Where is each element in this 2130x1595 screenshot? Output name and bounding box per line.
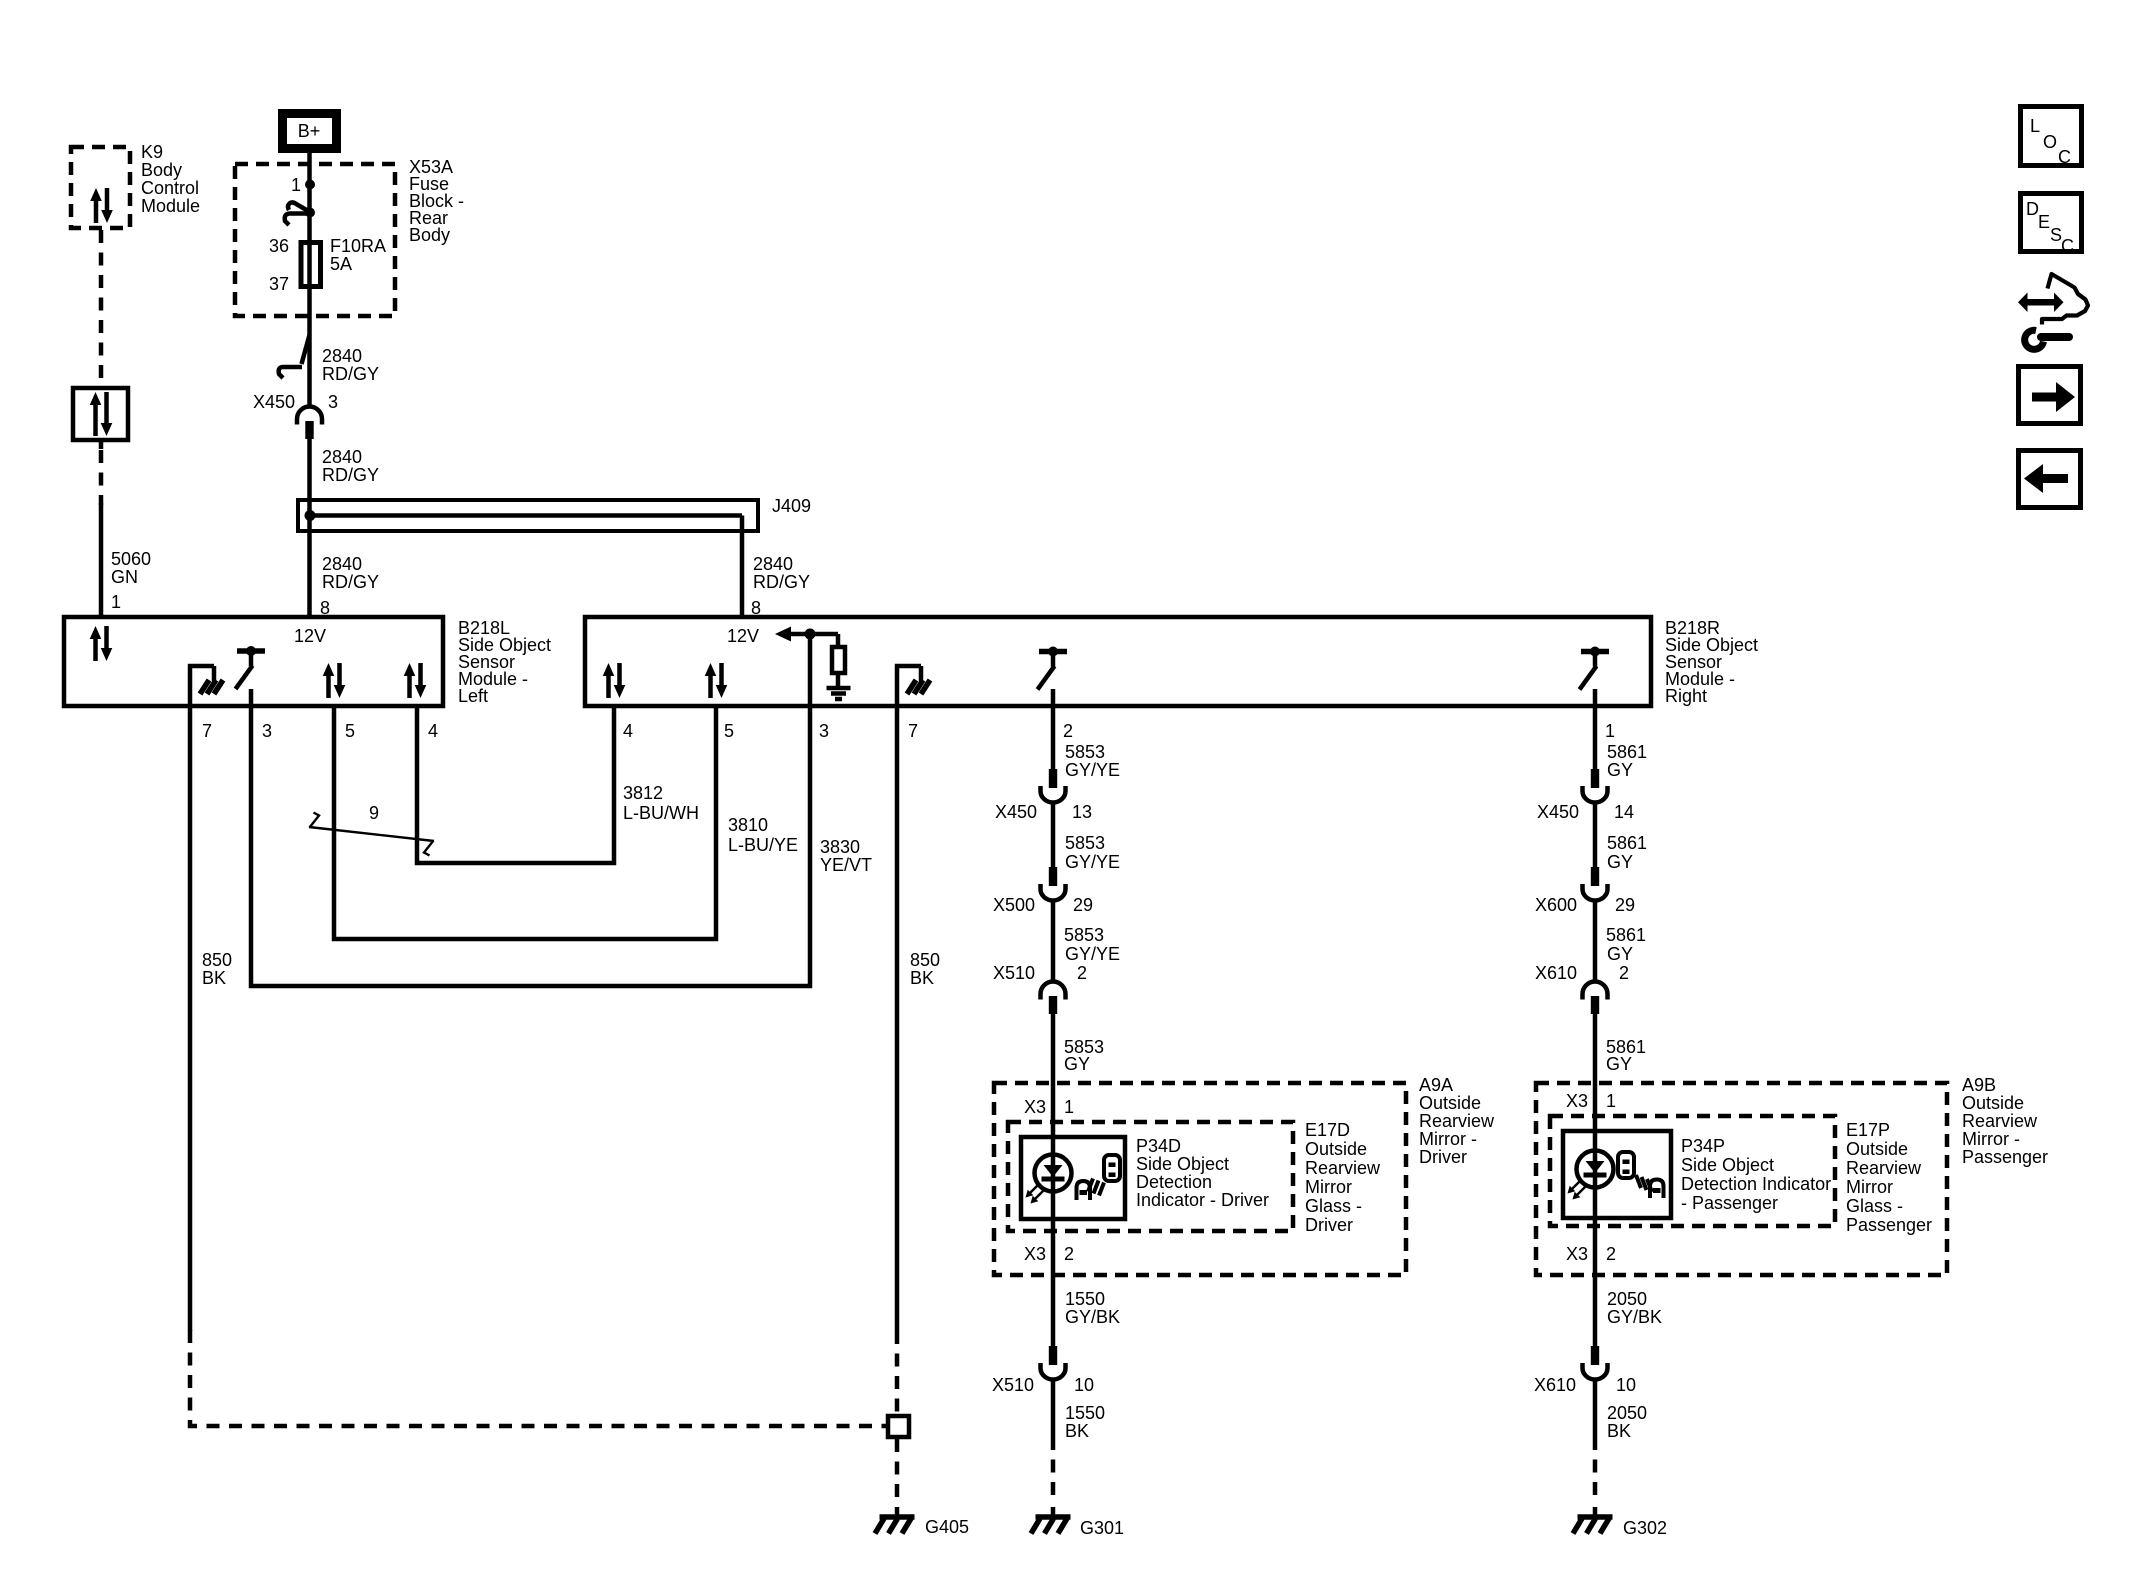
svg-text:BK: BK: [1607, 1421, 1631, 1441]
svg-text:2: 2: [1063, 721, 1073, 741]
svg-text:Mirror -: Mirror -: [1419, 1129, 1477, 1149]
svg-text:2050: 2050: [1607, 1403, 1647, 1423]
svg-text:3812: 3812: [623, 783, 663, 803]
svg-text:C: C: [2061, 236, 2074, 256]
svg-text:2840: 2840: [322, 447, 362, 467]
svg-text:P34D: P34D: [1136, 1136, 1181, 1156]
svg-text:Outside: Outside: [1305, 1139, 1367, 1159]
svg-text:X610: X610: [1534, 1375, 1576, 1395]
svg-text:GY/BK: GY/BK: [1065, 1307, 1120, 1327]
svg-text:36: 36: [269, 236, 289, 256]
svg-text:2840: 2840: [753, 554, 793, 574]
svg-text:2: 2: [1077, 963, 1087, 983]
svg-text:850: 850: [202, 950, 232, 970]
svg-text:- Passenger: - Passenger: [1681, 1193, 1778, 1213]
svg-text:Control: Control: [141, 178, 199, 198]
svg-text:X450: X450: [253, 392, 295, 412]
svg-text:X510: X510: [992, 1375, 1034, 1395]
svg-text:F10RA: F10RA: [330, 236, 386, 256]
svg-text:2: 2: [1064, 1244, 1074, 1264]
svg-text:5853: 5853: [1065, 833, 1105, 853]
svg-text:3810: 3810: [728, 815, 768, 835]
svg-text:2050: 2050: [1607, 1289, 1647, 1309]
svg-text:X450: X450: [1537, 802, 1579, 822]
svg-text:2: 2: [1606, 1244, 1616, 1264]
svg-text:RD/GY: RD/GY: [322, 364, 379, 384]
svg-text:Indicator - Driver: Indicator - Driver: [1136, 1190, 1269, 1210]
svg-text:GY/YE: GY/YE: [1065, 760, 1120, 780]
svg-text:GY: GY: [1607, 852, 1633, 872]
svg-text:RD/GY: RD/GY: [753, 572, 810, 592]
svg-text:Body: Body: [409, 225, 450, 245]
svg-text:9: 9: [369, 803, 379, 823]
svg-text:A9A: A9A: [1419, 1075, 1453, 1095]
svg-text:BK: BK: [910, 968, 934, 988]
svg-text:5853: 5853: [1065, 742, 1105, 762]
svg-text:2840: 2840: [322, 554, 362, 574]
svg-text:14: 14: [1614, 802, 1634, 822]
svg-text:X510: X510: [993, 963, 1035, 983]
svg-text:X3: X3: [1024, 1244, 1046, 1264]
svg-text:37: 37: [269, 274, 289, 294]
svg-text:Rearview: Rearview: [1962, 1111, 2038, 1131]
svg-text:BK: BK: [202, 968, 226, 988]
svg-text:GY: GY: [1064, 1054, 1090, 1074]
svg-text:Side Object: Side Object: [1681, 1155, 1774, 1175]
svg-text:Module: Module: [141, 196, 200, 216]
svg-text:Body: Body: [141, 160, 182, 180]
svg-text:C: C: [2058, 147, 2071, 167]
svg-text:G302: G302: [1623, 1518, 1667, 1538]
svg-text:1: 1: [1064, 1097, 1074, 1117]
svg-text:A9B: A9B: [1962, 1075, 1996, 1095]
svg-text:GY: GY: [1607, 944, 1633, 964]
svg-text:X3: X3: [1024, 1097, 1046, 1117]
svg-text:GY/YE: GY/YE: [1065, 944, 1120, 964]
svg-text:Rearview: Rearview: [1305, 1158, 1381, 1178]
svg-text:E: E: [2038, 212, 2050, 232]
svg-text:B+: B+: [298, 121, 321, 141]
svg-text:E17D: E17D: [1305, 1120, 1350, 1140]
svg-text:GY/YE: GY/YE: [1065, 852, 1120, 872]
svg-text:Outside: Outside: [1962, 1093, 2024, 1113]
svg-text:29: 29: [1615, 895, 1635, 915]
svg-text:10: 10: [1074, 1375, 1094, 1395]
svg-text:G301: G301: [1080, 1518, 1124, 1538]
svg-text:X610: X610: [1535, 963, 1577, 983]
svg-text:Passenger: Passenger: [1846, 1215, 1932, 1235]
svg-text:2840: 2840: [322, 346, 362, 366]
svg-text:Mirror -: Mirror -: [1962, 1129, 2020, 1149]
svg-text:3830: 3830: [820, 837, 860, 857]
svg-text:Side Object: Side Object: [1136, 1154, 1229, 1174]
svg-text:L-BU/YE: L-BU/YE: [728, 835, 798, 855]
svg-text:5: 5: [724, 721, 734, 741]
svg-text:Right: Right: [1665, 686, 1707, 706]
svg-text:Mirror: Mirror: [1305, 1177, 1352, 1197]
svg-text:Detection Indicator: Detection Indicator: [1681, 1174, 1831, 1194]
svg-text:GY: GY: [1607, 760, 1633, 780]
svg-text:4: 4: [428, 721, 438, 741]
svg-text:1550: 1550: [1065, 1289, 1105, 1309]
svg-text:29: 29: [1073, 895, 1093, 915]
svg-text:RD/GY: RD/GY: [322, 572, 379, 592]
svg-text:5861: 5861: [1607, 833, 1647, 853]
svg-text:X450: X450: [995, 802, 1037, 822]
svg-text:L-BU/WH: L-BU/WH: [623, 803, 699, 823]
svg-text:P34P: P34P: [1681, 1136, 1725, 1156]
svg-text:1: 1: [1606, 1091, 1616, 1111]
svg-text:13: 13: [1072, 802, 1092, 822]
svg-text:1: 1: [291, 175, 301, 195]
svg-text:Driver: Driver: [1419, 1147, 1467, 1167]
svg-text:Left: Left: [458, 686, 488, 706]
svg-text:5853: 5853: [1064, 925, 1104, 945]
svg-text:10: 10: [1616, 1375, 1636, 1395]
svg-text:Glass -: Glass -: [1305, 1196, 1362, 1216]
svg-text:5060: 5060: [111, 549, 151, 569]
svg-text:J409: J409: [772, 496, 811, 516]
svg-text:Rearview: Rearview: [1419, 1111, 1495, 1131]
svg-text:5861: 5861: [1606, 925, 1646, 945]
svg-text:3: 3: [819, 721, 829, 741]
svg-text:Outside: Outside: [1419, 1093, 1481, 1113]
svg-text:GY/BK: GY/BK: [1607, 1307, 1662, 1327]
svg-text:GN: GN: [111, 567, 138, 587]
svg-text:1: 1: [111, 592, 121, 612]
svg-text:7: 7: [908, 721, 918, 741]
svg-text:5: 5: [345, 721, 355, 741]
svg-text:GY: GY: [1606, 1054, 1632, 1074]
svg-text:X500: X500: [993, 895, 1035, 915]
svg-text:1: 1: [1605, 721, 1615, 741]
svg-text:12V: 12V: [294, 626, 326, 646]
svg-text:850: 850: [910, 950, 940, 970]
svg-text:5861: 5861: [1607, 742, 1647, 762]
svg-text:3: 3: [328, 392, 338, 412]
svg-text:Driver: Driver: [1305, 1215, 1353, 1235]
svg-text:Outside: Outside: [1846, 1139, 1908, 1159]
svg-text:O: O: [2043, 132, 2057, 152]
svg-text:X3: X3: [1566, 1244, 1588, 1264]
svg-text:3: 3: [262, 721, 272, 741]
svg-text:12V: 12V: [727, 626, 759, 646]
svg-text:2: 2: [1619, 963, 1629, 983]
svg-text:Glass -: Glass -: [1846, 1196, 1903, 1216]
svg-text:Detection: Detection: [1136, 1172, 1212, 1192]
svg-text:RD/GY: RD/GY: [322, 465, 379, 485]
svg-text:5A: 5A: [330, 254, 352, 274]
svg-text:K9: K9: [141, 142, 163, 162]
svg-text:BK: BK: [1065, 1421, 1089, 1441]
svg-text:L: L: [2030, 116, 2040, 136]
svg-text:Rearview: Rearview: [1846, 1158, 1922, 1178]
svg-text:X3: X3: [1566, 1091, 1588, 1111]
svg-text:G405: G405: [925, 1517, 969, 1537]
svg-text:X600: X600: [1535, 895, 1577, 915]
svg-text:E17P: E17P: [1846, 1120, 1890, 1140]
svg-text:YE/VT: YE/VT: [820, 855, 872, 875]
svg-text:7: 7: [202, 721, 212, 741]
svg-text:Mirror: Mirror: [1846, 1177, 1893, 1197]
svg-text:Passenger: Passenger: [1962, 1147, 2048, 1167]
svg-text:1550: 1550: [1065, 1403, 1105, 1423]
svg-text:4: 4: [623, 721, 633, 741]
